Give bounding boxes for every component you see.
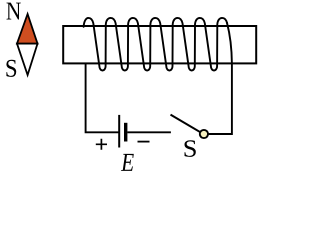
label E (battery) [121,154,134,171]
wire: coil left lead down and right to battery positive [86,64,119,133]
label S (switch) [184,140,195,157]
label + (battery positive) [96,139,107,150]
label N (compass north) [7,3,21,20]
solenoid coil winding (7 turns) [84,18,228,71]
compass needle south half (white) [17,44,38,75]
switch S pivot circle [200,130,208,138]
label S (compass south) [6,60,16,77]
wire: coil right lead down to switch [209,23,232,134]
compass needle north half (red) [17,14,38,44]
wire: battery negative to switch [127,131,170,133]
battery E long plate (positive) [118,115,120,148]
label - (battery negative) [138,141,150,143]
solenoid core rectangle [63,26,256,63]
battery E short plate (negative) [124,123,127,142]
switch S lever (open) [171,115,201,133]
